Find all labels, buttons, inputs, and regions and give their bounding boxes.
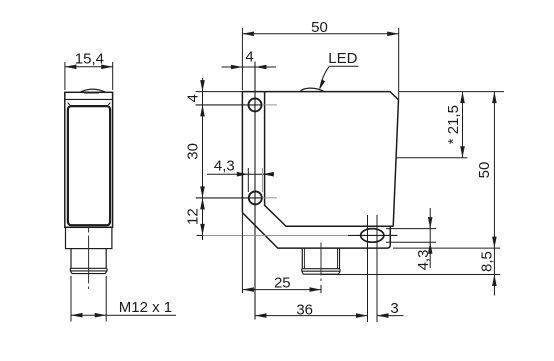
sensor body front view bbox=[65, 92, 113, 227]
slotted hole bbox=[361, 229, 384, 243]
dimension 4,3 right (slot width) bbox=[429, 208, 431, 268]
svg-text:8,5: 8,5 bbox=[479, 251, 496, 272]
svg-text:3: 3 bbox=[390, 300, 398, 317]
lower mounting hole bbox=[249, 191, 262, 204]
svg-text:4,3: 4,3 bbox=[415, 250, 432, 271]
dimension 4,3 left (hole diameter) bbox=[207, 173, 271, 175]
svg-text:M12 x 1: M12 x 1 bbox=[119, 299, 172, 316]
dimension 8,5 bbox=[493, 248, 495, 295]
dimension 25 bbox=[242, 289, 321, 291]
dimension 4 top bbox=[222, 66, 277, 68]
window corner spurs bbox=[68, 103, 111, 105]
collar section bbox=[66, 227, 112, 248]
svg-text:50: 50 bbox=[476, 162, 493, 179]
hole centerlines bbox=[196, 104, 263, 106]
thread relief lines bbox=[70, 267, 107, 269]
dimension 3 bbox=[377, 315, 404, 317]
svg-text:4: 4 bbox=[245, 49, 253, 66]
svg-text:4,3: 4,3 bbox=[214, 158, 235, 175]
svg-text:36: 36 bbox=[296, 301, 313, 318]
cap seam line bbox=[65, 98, 113, 100]
dimension M12 x 1 bbox=[71, 276, 176, 322]
svg-text:* 21,5: * 21,5 bbox=[445, 105, 462, 144]
dimension * 21,5 bbox=[462, 92, 464, 158]
dimension 36 bbox=[255, 315, 368, 317]
centerline of front view bbox=[88, 228, 90, 292]
front window (bold) bbox=[68, 106, 110, 225]
dimension 15,4 bbox=[65, 62, 113, 90]
body outline side view bbox=[242, 92, 398, 249]
centerline of connector bbox=[320, 243, 322, 285]
M12 connector side view bbox=[302, 248, 339, 269]
dimension 50 top bbox=[242, 33, 398, 35]
LED dome front view bbox=[80, 89, 106, 92]
slot centerline bbox=[197, 234, 349, 236]
svg-text:50: 50 bbox=[311, 19, 328, 36]
left vertical dimension chain 4 / 30 / 12 bbox=[202, 78, 204, 240]
extension lines bbox=[196, 28, 505, 293]
LED dome side view bbox=[300, 88, 325, 92]
upper mounting hole bbox=[249, 98, 262, 111]
svg-text:12: 12 bbox=[185, 208, 202, 225]
inner contour of face plate bbox=[265, 92, 394, 227]
svg-text:4: 4 bbox=[185, 94, 202, 102]
svg-text:LED: LED bbox=[328, 50, 357, 67]
svg-text:25: 25 bbox=[274, 274, 291, 291]
svg-text:30: 30 bbox=[185, 143, 202, 160]
dimension 50 right bbox=[493, 92, 495, 249]
svg-text:15,4: 15,4 bbox=[75, 51, 104, 68]
M12 thread body bbox=[71, 249, 106, 269]
